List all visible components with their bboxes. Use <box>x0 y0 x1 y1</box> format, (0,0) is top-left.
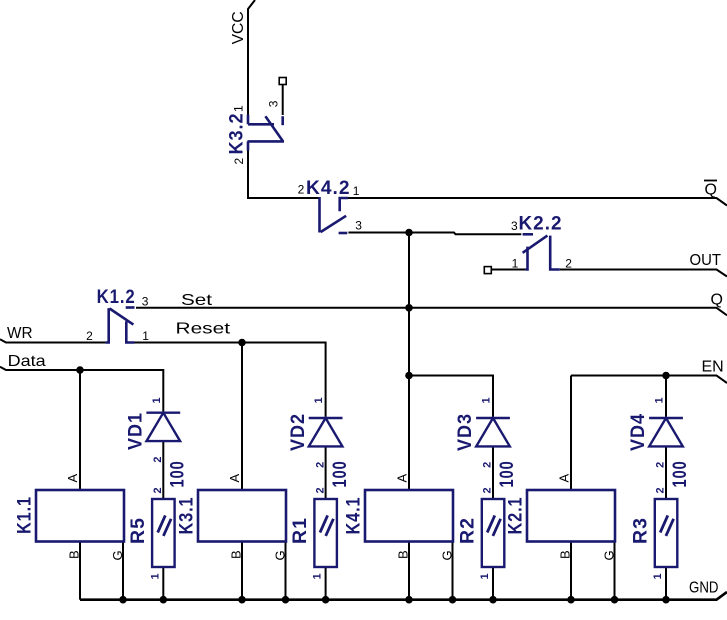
svg-text:Q: Q <box>705 182 717 199</box>
node GND K2.1-B <box>567 596 575 604</box>
svg-text:R5: R5 <box>128 517 149 544</box>
relay coil K3.1 <box>177 474 288 561</box>
svg-text:GND: GND <box>689 579 719 596</box>
wire K2.1 B <box>570 542 572 601</box>
svg-text:3: 3 <box>511 219 518 233</box>
resistor R2 <box>458 461 519 580</box>
svg-text:A: A <box>557 474 572 483</box>
svg-text:1: 1 <box>481 397 493 403</box>
wire VCC vertical <box>248 0 255 115</box>
resistor R3 <box>631 461 692 580</box>
wire K1.1 G <box>122 542 124 601</box>
svg-text:1: 1 <box>313 397 325 403</box>
svg-text:WR: WR <box>7 325 33 342</box>
contact K3.2 <box>248 115 285 151</box>
wire VD4 to R3 <box>665 446 667 499</box>
node EN/trunk <box>405 372 413 380</box>
relay coil K4.1 <box>344 474 455 561</box>
node GND K3.1-B <box>238 596 246 604</box>
wire EN net <box>571 376 727 384</box>
svg-text:Data: Data <box>8 353 46 370</box>
contact K4.2 <box>320 197 349 233</box>
node GND R3 <box>662 596 670 604</box>
wire K1.1 B <box>79 542 81 600</box>
node GND K4.1-B <box>405 596 413 604</box>
wire Data branch to K1.1 A <box>79 370 81 490</box>
terminal square K3.2 pin3 <box>279 78 286 85</box>
svg-text:A: A <box>65 474 80 483</box>
wire OUT net left <box>492 269 526 271</box>
node GND R2 <box>489 596 497 604</box>
wire VD2 to R1 <box>325 446 327 499</box>
svg-text:2: 2 <box>232 158 246 165</box>
wire Set / Q net <box>136 308 727 316</box>
wire Data <box>0 367 163 413</box>
resistor R5 <box>128 461 189 580</box>
svg-text:1: 1 <box>312 573 324 579</box>
svg-text:100: 100 <box>168 461 189 488</box>
svg-text:1: 1 <box>479 573 491 579</box>
wire K3.1 G <box>285 542 287 601</box>
svg-text:1: 1 <box>652 573 664 579</box>
svg-text:Set: Set <box>181 292 213 309</box>
wire R1 bottom <box>325 567 327 600</box>
wire R3 bottom <box>665 567 667 600</box>
svg-text:2: 2 <box>314 487 326 493</box>
svg-text:1: 1 <box>353 184 360 198</box>
wire K4.1 G <box>452 542 454 601</box>
svg-text:R2: R2 <box>458 517 479 544</box>
overbar of Q-bar <box>704 180 717 182</box>
svg-text:1: 1 <box>149 573 161 579</box>
svg-text:1: 1 <box>151 397 163 403</box>
svg-text:OUT: OUT <box>690 252 722 269</box>
contact K3.2 labels <box>227 100 281 164</box>
svg-text:A: A <box>395 474 410 483</box>
svg-text:100: 100 <box>330 461 351 488</box>
wire K4.2 pin3 to K2.2 pin3 <box>348 233 521 235</box>
svg-text:VD4: VD4 <box>628 413 649 451</box>
svg-text:1: 1 <box>142 329 149 343</box>
node EN/VD4 <box>662 372 670 380</box>
svg-text:A: A <box>227 474 242 483</box>
contact K1.2 labels <box>86 287 149 343</box>
svg-text:K1.2: K1.2 <box>97 287 136 308</box>
wire K3.2 pin2 to K4.2 pin2 <box>248 150 320 198</box>
wire WR <box>0 339 105 342</box>
node Reset/K3.1 <box>238 339 246 347</box>
terminal square K2.2 pin1 <box>484 267 491 274</box>
svg-text:G: G <box>440 550 455 560</box>
wire VD4 top <box>665 376 667 419</box>
svg-text:G: G <box>110 550 125 560</box>
svg-text:R1: R1 <box>290 517 311 544</box>
svg-text:G: G <box>602 550 617 560</box>
contact K2.2 <box>523 234 560 269</box>
svg-text:VCC: VCC <box>230 11 247 44</box>
svg-text:1: 1 <box>654 397 666 403</box>
wire Reset branch to K3.1 A <box>241 343 243 490</box>
svg-text:K4.2: K4.2 <box>306 178 351 199</box>
node GND K1.1-G <box>119 596 127 604</box>
wire K3.2 pin3 stub <box>282 85 284 115</box>
svg-text:2: 2 <box>152 456 164 462</box>
svg-text:K4.1: K4.1 <box>344 497 365 535</box>
node Data/K1.1 <box>76 366 84 374</box>
node Set/trunk <box>405 304 413 312</box>
svg-text:R3: R3 <box>631 517 652 544</box>
svg-text:K2.2: K2.2 <box>519 214 563 235</box>
relay coil K2.1 <box>506 474 617 561</box>
diode VD2 <box>288 397 343 468</box>
svg-text:2: 2 <box>482 462 494 468</box>
svg-text:100: 100 <box>497 461 518 488</box>
svg-text:3: 3 <box>142 294 149 308</box>
svg-text:2: 2 <box>86 329 93 343</box>
node GND K2.1-G <box>611 596 619 604</box>
svg-text:B: B <box>67 550 82 559</box>
svg-text:100: 100 <box>670 461 691 488</box>
svg-text:2: 2 <box>565 256 572 270</box>
svg-text:Reset: Reset <box>176 321 231 338</box>
diode VD4 <box>628 397 683 468</box>
svg-text:3: 3 <box>267 100 281 107</box>
wire K4.1 B <box>408 542 410 601</box>
node GND R1 <box>322 596 330 604</box>
wire Reset net <box>135 343 326 419</box>
contact K2.2 labels <box>511 214 572 271</box>
svg-text:2: 2 <box>655 462 667 468</box>
node GND K3.1-G <box>282 596 290 604</box>
wire R5 bottom <box>162 567 164 600</box>
svg-text:2: 2 <box>482 487 494 493</box>
diode VD3 <box>455 397 510 468</box>
svg-text:Q: Q <box>711 292 723 309</box>
relay coil K1.1 <box>15 474 126 561</box>
svg-text:EN: EN <box>702 359 724 376</box>
svg-text:2: 2 <box>655 487 667 493</box>
wire GND bus <box>80 592 727 600</box>
svg-text:VD2: VD2 <box>288 413 309 451</box>
svg-text:K2.1: K2.1 <box>506 497 527 535</box>
wire K3.1 B <box>241 542 243 601</box>
wire K2.1 A <box>570 376 572 490</box>
svg-text:K3.2: K3.2 <box>227 113 248 155</box>
svg-text:B: B <box>229 550 244 559</box>
svg-text:B: B <box>558 550 573 559</box>
node K4.2-3 / trunk <box>405 229 413 237</box>
svg-text:1: 1 <box>231 105 245 112</box>
svg-text:G: G <box>273 550 288 560</box>
wire VD1 to R5 <box>162 441 164 499</box>
node GND K4.1-G <box>449 596 457 604</box>
wire EN left branch <box>409 376 493 419</box>
svg-text:3: 3 <box>355 219 362 233</box>
svg-text:2: 2 <box>298 183 305 197</box>
svg-text:1: 1 <box>512 256 519 270</box>
svg-text:K1.1: K1.1 <box>15 496 36 534</box>
contact K4.2 labels <box>298 178 363 233</box>
wire Q-bar net <box>348 198 727 206</box>
contact K1.2 <box>105 308 134 343</box>
wire trunk center <box>408 233 410 490</box>
svg-text:B: B <box>396 550 411 559</box>
node GND R5 <box>160 596 168 604</box>
wire R2 bottom <box>492 567 494 600</box>
svg-text:K3.1: K3.1 <box>177 497 198 535</box>
wire K2.1 G <box>614 542 616 601</box>
svg-text:2: 2 <box>152 487 164 493</box>
wire OUT net right <box>560 270 727 277</box>
svg-text:VD1: VD1 <box>126 412 147 450</box>
diode VD1 <box>126 397 181 462</box>
svg-text:2: 2 <box>314 462 326 468</box>
wire VD3 to R2 <box>492 446 494 499</box>
svg-text:VD3: VD3 <box>455 413 476 451</box>
resistor R1 <box>290 461 351 580</box>
